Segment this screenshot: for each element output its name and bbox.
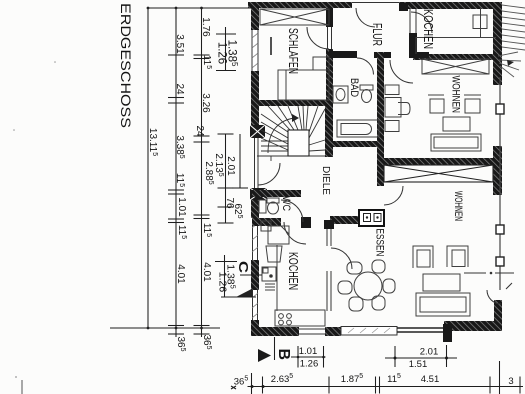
tick through left wall at stove [240, 274, 262, 276]
section line B stub [274, 337, 276, 360]
kitchen-left dishwasher [268, 226, 289, 244]
window sill band essen [341, 327, 397, 336]
window: left wall kitchen 2 [251, 290, 259, 320]
window: bottom wall glazing wohnen [397, 328, 445, 332]
svg-text:DIELE: DIELE [320, 166, 332, 195]
kitchen-left sink [266, 246, 282, 262]
bed schlafen [278, 70, 329, 100]
wall: schlafen right partition upper block [326, 8, 333, 27]
pillar with X upper (entrance) [250, 125, 265, 138]
stairs: walking line [268, 118, 294, 153]
svg-text:4.01: 4.01 [201, 262, 212, 282]
door arc: kochen to essen [331, 248, 352, 269]
nightstand mark schlafen [270, 37, 272, 55]
closet box with X: schlafen top [260, 9, 329, 25]
bottom long dimension line [248, 386, 524, 388]
wall: left exterior segment A [251, 2, 259, 30]
svg-text:FLUR: FLUR [370, 23, 385, 46]
svg-text:13.115: 13.115 [147, 128, 158, 156]
dimension chain line 3 (x201.5) [201, 8, 203, 337]
toilet wc [267, 198, 279, 214]
side table schlafen [313, 57, 329, 70]
svg-text:WOHNEN: WOHNEN [450, 76, 462, 114]
svg-text:KOCHEN: KOCHEN [286, 252, 301, 290]
wall: bottom step pier [443, 324, 452, 342]
right corner chain line [499, 361, 501, 394]
wall: kochen-essen thin partition [327, 228, 331, 311]
terrace post D [496, 257, 504, 266]
desk upper wohnen [385, 98, 401, 118]
dim pair 2.01/1.51 line and ticks [385, 357, 457, 359]
svg-text:3.26: 3.26 [200, 93, 211, 113]
door arc: front entrance left wall [258, 163, 280, 185]
sofa upper wohnen [431, 134, 481, 151]
armchair 2 upper wohnen [464, 95, 481, 113]
top wall outer face line across entrance [352, 2, 399, 4]
svg-text:2.01: 2.01 [225, 156, 236, 176]
svg-text:C: C [236, 261, 251, 274]
wall: bad right / diele-wohnen divider [377, 52, 384, 186]
wall: mid wall between wohnen rooms [383, 158, 493, 165]
dimension chain line 2 (x176) [175, 8, 177, 337]
svg-text:1.01: 1.01 [176, 197, 187, 217]
wall: mid wall right pier [493, 146, 502, 195]
kitchen-top counter [416, 38, 496, 55]
section arrow B [258, 349, 271, 362]
chairs essen [338, 260, 395, 311]
wall: kochen-top door reveal lines [410, 9, 416, 33]
window: left wall kitchen 1 [251, 218, 259, 260]
french door thin line at entrance [255, 138, 259, 188]
door arc: bad from flur [357, 58, 374, 75]
mini chain top (door width) [216, 27, 236, 71]
bottom dimension block [231, 337, 523, 394]
svg-text:B: B [275, 349, 292, 361]
wall: kochen-top bottom wall [413, 54, 501, 60]
stairs: lower straight flight [261, 140, 288, 142]
terrace window front line [499, 77, 501, 290]
radiator box with X: upper wohnen window [422, 59, 489, 74]
terrace post C [496, 225, 504, 234]
wall: schlafen bottom / stairs top [253, 100, 328, 106]
armchair 1 lower wohnen [413, 246, 433, 268]
wall: wc bottom jamb block [301, 217, 311, 228]
wall: wc bottom [252, 218, 281, 226]
stairs: stairwell eye [288, 130, 309, 156]
svg-text:3: 3 [508, 376, 513, 387]
sideboard upper wohnen [385, 85, 399, 95]
stove burners [279, 314, 292, 325]
window: bottom wall kitchen [299, 328, 325, 335]
basin wc [259, 200, 266, 213]
wall: left exterior segment D [251, 260, 259, 290]
entrance arrow triangle [237, 289, 253, 297]
wall: left exterior segment C below front door [251, 200, 259, 218]
mini chain bottom (door width) [215, 255, 256, 297]
svg-text:WC: WC [280, 196, 292, 211]
stairs: bottom edge line [257, 155, 325, 157]
wall: right exterior corner below terrace door [494, 300, 502, 331]
door arc: top entrance into flur [356, 8, 375, 27]
bathtub bad [337, 120, 379, 137]
kitchen-left bottom counter [275, 310, 325, 326]
wall: top exterior right segment [399, 2, 497, 9]
coffee table upper wohnen [443, 117, 470, 131]
svg-text:1.26: 1.26 [300, 359, 319, 370]
svg-text:24: 24 [174, 83, 185, 95]
wall: bad top stub right [374, 52, 391, 58]
ticks chain 3 [194, 55, 210, 334]
sofa lower wohnen [416, 293, 470, 316]
svg-text:1.01: 1.01 [299, 346, 318, 357]
dining table essen [354, 272, 382, 300]
wall: kochen-top right exterior [493, 2, 502, 85]
svg-text:3.51: 3.51 [174, 34, 185, 54]
coffee table lower wohnen [423, 274, 460, 291]
door arc: schlafen from flur [307, 27, 329, 49]
kitchen-top sink [473, 8, 487, 38]
tick chain 5 [232, 187, 248, 189]
radiator box: mid wall [384, 165, 493, 182]
wall: kochen-top left door block [409, 33, 417, 58]
cabinet upper wohnen [385, 121, 399, 132]
stairs: walking line arrowhead [292, 114, 299, 122]
door arc: kochen-top from flur [411, 12, 432, 33]
wall: bottom exterior mid segment [325, 327, 341, 336]
door arc: wc [281, 200, 303, 222]
chimney with two flues [359, 210, 384, 226]
kitchen-left top cabinet [261, 221, 271, 231]
armchair 2 lower wohnen [447, 246, 468, 267]
wall: left exterior segment B [251, 71, 259, 125]
wall: mid wall left pier [377, 142, 384, 185]
dimension chain line 1 (x148) [147, 8, 149, 328]
washbasin bad [333, 86, 348, 103]
svg-text:KOCHEN: KOCHEN [421, 9, 436, 49]
ticks chain 2 [168, 55, 184, 334]
dots at dimension intersections [147, 7, 150, 10]
dimension bottom connector line [110, 327, 220, 329]
wall: bad top stub left [329, 51, 357, 58]
dots bottom dims [251, 385, 254, 388]
dimension top connector line [148, 7, 251, 9]
kitchen-left stove [262, 267, 276, 281]
ticks chain 4 [218, 134, 234, 223]
stairs: winder steps fan [261, 114, 288, 132]
kitchen-left counter edge [276, 245, 278, 311]
svg-text:4.51: 4.51 [421, 374, 440, 385]
dim pair 1.01/1.26 line and ticks [291, 356, 326, 358]
door arc: terrace door bottom right [487, 290, 501, 304]
svg-text:ERDGESCHOSS: ERDGESCHOSS [118, 3, 133, 128]
svg-text:4.01: 4.01 [175, 264, 186, 284]
small end mark left [231, 386, 236, 389]
chair upper wohnen [398, 103, 410, 115]
kitchen-left vent stripes [265, 284, 275, 290]
svg-text:24: 24 [194, 125, 205, 137]
wall: partition top jamb block [324, 220, 334, 229]
svg-text:WOHNEN: WOHNEN [452, 191, 464, 221]
dimension chain line 5 (x240) [239, 134, 241, 188]
dimension chain line 4 (x225.5) [225, 134, 227, 223]
wall: top entry jamb block [399, 3, 408, 11]
wall: wc top [252, 190, 301, 197]
svg-text:ESSEN: ESSEN [374, 229, 386, 257]
bottom ticks [251, 373, 253, 394]
wall: bottom exterior right raised segment [444, 321, 502, 331]
armchair 1 upper wohnen [428, 95, 444, 113]
wall: bottom exterior kitchen segment [251, 327, 299, 336]
svg-text:BAD: BAD [348, 78, 360, 97]
terrace post A [496, 104, 504, 114]
svg-text:1.51: 1.51 [409, 359, 428, 370]
window: left wall schlafen [251, 30, 259, 71]
pillar with X lower (entrance) [250, 188, 267, 200]
door arc: upper wohnen from flur [390, 60, 413, 83]
wall: flur right stub [410, 52, 429, 58]
wall: left exterior bottom corner [251, 320, 259, 335]
door arc: lower wohnen from diele [384, 186, 403, 205]
door arc: kochen-left from diele [284, 222, 306, 244]
wall: stairs right wall [325, 106, 333, 157]
svg-text:SCHLAFEN: SCHLAFEN [286, 28, 301, 74]
svg-text:2.01: 2.01 [420, 347, 439, 358]
terrain hatch top right [498, 5, 525, 77]
wall: top exterior left segment [248, 2, 352, 8]
svg-text:1.76: 1.76 [200, 17, 211, 37]
wall: schlafen right partition lower [326, 49, 333, 106]
stray scan marks [13, 61, 56, 378]
wall: chimney wall stub [330, 216, 358, 224]
wall: bad bottom [329, 141, 384, 147]
property dash-dot line right [464, 272, 514, 289]
toilet bad [360, 85, 373, 103]
terrain arrow [507, 60, 514, 66]
wall: schlafen-flur partition door reveal lines [328, 27, 332, 49]
